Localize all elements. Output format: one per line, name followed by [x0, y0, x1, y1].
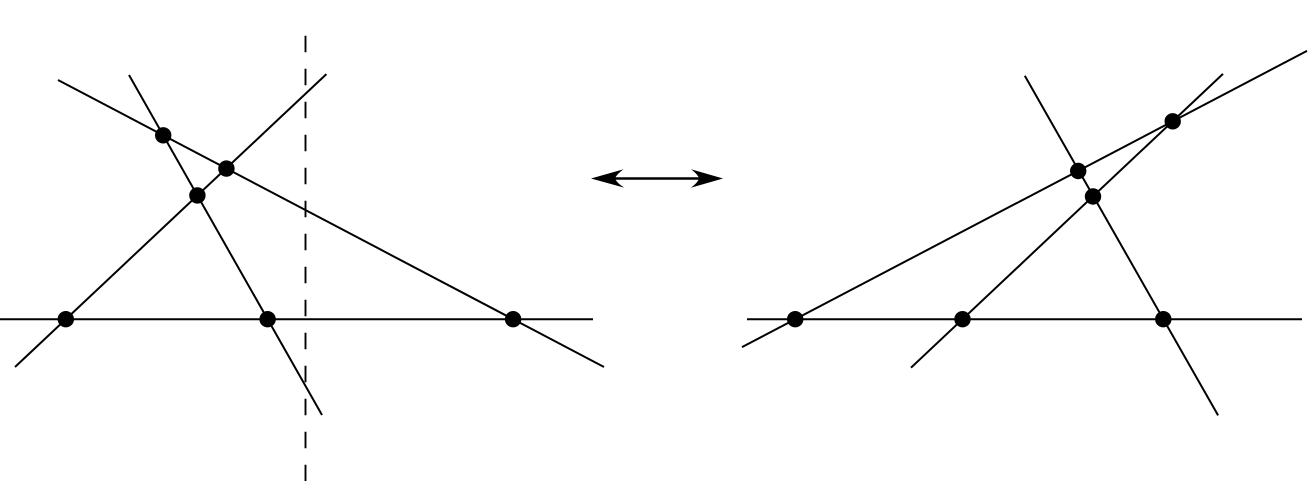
wire line L1 horizontal left — [0, 318, 593, 320]
wire line L1 horizontal right — [747, 318, 1302, 320]
node E left — [259, 311, 275, 327]
arrow head right — [691, 169, 723, 187]
node C left — [189, 187, 205, 203]
node F left — [505, 311, 521, 327]
wire line L3 medium ascending right — [911, 74, 1223, 368]
node D left — [58, 311, 74, 327]
node E right — [954, 311, 970, 327]
wire line L4 steep descending right — [1025, 76, 1218, 416]
wire line L2 shallow descending left — [58, 80, 604, 367]
node A right — [1165, 113, 1181, 129]
node F right — [1155, 311, 1171, 327]
wire line L2 shallow ascending right — [742, 51, 1307, 347]
node C right — [1085, 188, 1101, 204]
wire line L3 steep descending left — [129, 75, 322, 415]
dashed vertical line — [305, 36, 307, 481]
left arrangement lines — [0, 74, 604, 415]
double arrow — [591, 169, 723, 187]
wire line L4 ascending left — [15, 74, 326, 367]
arrow shaft — [605, 177, 710, 179]
node B right — [1070, 163, 1086, 179]
right arrangement lines — [742, 51, 1307, 416]
left arrangement intersection dots — [58, 127, 522, 327]
right arrangement intersection dots — [787, 113, 1181, 327]
arrow head left — [591, 169, 624, 187]
node A left — [155, 127, 171, 143]
node B left — [218, 160, 234, 176]
node D right — [787, 311, 803, 327]
